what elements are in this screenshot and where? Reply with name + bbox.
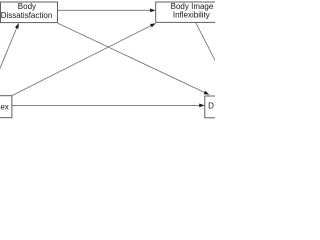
wire: horizontal arrow Body Dissatisfaction to Body Image Inflexibility [58,9,151,11]
wire: arrow Sex to Body Dissatisfaction (steep diagonal, enters from off-canvas lower-left) [0,28,17,97]
box: Body Dissatisfaction [1,2,58,23]
box: Body Image Inflexibility [156,2,227,22]
svg-text:Body: Body [18,2,36,11]
wire: steep line from Body Image Inflexibility bottom exiting right edge [196,23,216,62]
box: D outcome (cut off at right edge) [205,96,267,118]
wire: arrow Body Dissatisfaction to D-box (long down-right diagonal) [58,23,205,92]
wire: horizontal arrow Sex to D-box [12,104,199,106]
svg-text:Sex: Sex [0,102,9,111]
svg-text:Inflexibility: Inflexibility [173,11,210,20]
svg-text:D: D [208,102,214,111]
svg-text:Dissatisfaction: Dissatisfaction [1,11,53,20]
wire: arrow Sex to Body Image Inflexibility (long up-right diagonal) [12,26,151,96]
box: Sex (cut off at left edge) [0,96,12,118]
